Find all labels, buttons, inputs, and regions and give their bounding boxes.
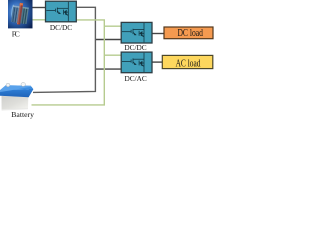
svg-text:Battery: Battery <box>11 110 34 119</box>
svg-text:AC load: AC load <box>176 58 201 69</box>
svg-text:DC/AC: DC/AC <box>124 74 146 83</box>
svg-text:FC: FC <box>12 30 20 39</box>
svg-text:DC/DC: DC/DC <box>50 23 72 32</box>
svg-text:DC load: DC load <box>177 27 203 38</box>
svg-text:DC/DC: DC/DC <box>124 43 146 52</box>
